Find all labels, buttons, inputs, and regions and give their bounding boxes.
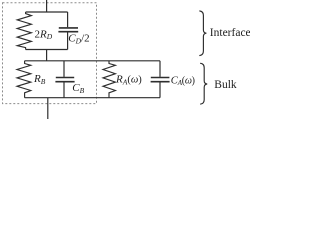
- dashed boundary box: [3, 3, 97, 104]
- resistor RA: [103, 61, 115, 98]
- top terminal lead: [46, 0, 48, 12]
- resistor 2RD: [17, 12, 31, 50]
- svg-text:CA(ω): CA(ω): [171, 75, 195, 87]
- resistor RB: [17, 61, 31, 98]
- capacitor CA: [151, 61, 170, 98]
- svg-text:RB: RB: [33, 73, 46, 86]
- svg-text:Bulk: Bulk: [214, 79, 237, 91]
- wire: bulk top rail: [25, 60, 160, 62]
- capacitor CB: [55, 61, 74, 98]
- brace for Interface: [200, 11, 207, 56]
- svg-text:2RD: 2RD: [35, 28, 53, 41]
- svg-text:CD/2: CD/2: [68, 33, 89, 46]
- svg-text:Interface: Interface: [210, 27, 250, 39]
- svg-text:RA(ω): RA(ω): [115, 74, 142, 87]
- bottom terminal lead: [47, 98, 49, 119]
- wire: interface top rail: [26, 11, 68, 13]
- wire: interface bottom rail: [26, 49, 68, 51]
- svg-text:CB: CB: [72, 82, 84, 95]
- wire: center stub between sections: [46, 50, 48, 61]
- wire: bulk bottom rail: [25, 97, 160, 99]
- brace for Bulk: [201, 63, 208, 104]
- capacitor CD/2: [58, 12, 78, 50]
